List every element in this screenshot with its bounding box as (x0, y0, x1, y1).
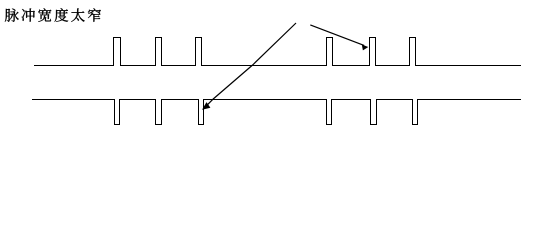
callout line B (to top waveform pulse) (310, 25, 364, 46)
top waveform: narrow positive pulses (34, 38, 521, 66)
label text: 脉冲宽度太窄 (pulse width too narrow) (5, 8, 101, 22)
arrowhead A (202, 102, 210, 110)
callout line A (to bottom waveform pulse) (206, 23, 296, 106)
arrowhead B (362, 45, 369, 51)
bottom waveform: narrow negative pulses (32, 100, 521, 125)
